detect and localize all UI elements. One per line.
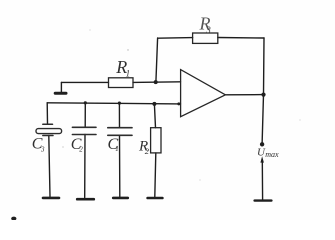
svg-text:max: max [265, 150, 279, 159]
svg-text:2: 2 [79, 146, 83, 154]
svg-text:1: 1 [115, 145, 119, 153]
svg-text:3: 3 [40, 145, 45, 153]
svg-text:1: 1 [126, 68, 131, 78]
svg-text:3: 3 [205, 25, 211, 35]
svg-text:2: 2 [145, 146, 150, 156]
